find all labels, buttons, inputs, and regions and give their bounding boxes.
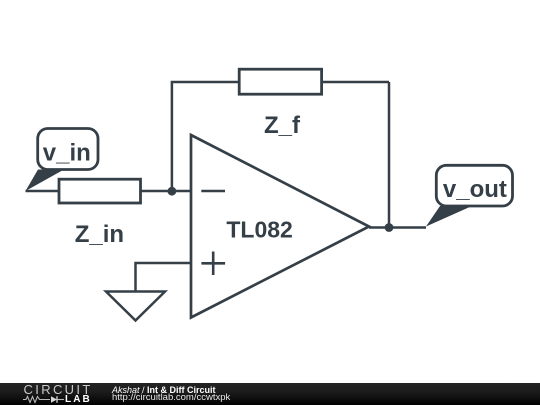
svg-text:v_out: v_out [443,176,507,203]
ground [106,292,165,321]
wire output [369,226,426,229]
op-amp U1 TL082 triangle [191,135,369,318]
node junction inverting input [168,187,177,196]
flag v_out balloon [436,165,512,206]
node junction output [385,223,394,232]
wire input left segment [26,190,59,193]
impedance Z_f [239,69,321,94]
svg-text:v_in: v_in [43,140,91,167]
op-amp non-inverting pin plus sign [201,252,225,276]
svg-text:TL082: TL082 [226,216,292,242]
op-amp inverting pin minus sign [201,190,225,193]
wire feedback right horizontal [322,81,389,84]
svg-text:Z_f: Z_f [264,112,301,139]
flag v_out tail [426,206,472,227]
wire Z_in to inverting input [141,190,190,193]
footer url [112,392,230,403]
wire feedback right vertical [388,82,391,228]
impedance Z_in [59,179,141,203]
logo CircuitLab wordmark [24,385,99,395]
flag v_in balloon [38,129,98,170]
footer title [112,385,216,395]
flag v_in tail [26,170,65,192]
wire feedback left vertical [172,82,238,191]
logo resistor diode LAB [23,395,68,404]
wire non-inverting input [136,263,191,292]
footer bar [0,383,540,405]
svg-text:Z_in: Z_in [75,221,124,248]
